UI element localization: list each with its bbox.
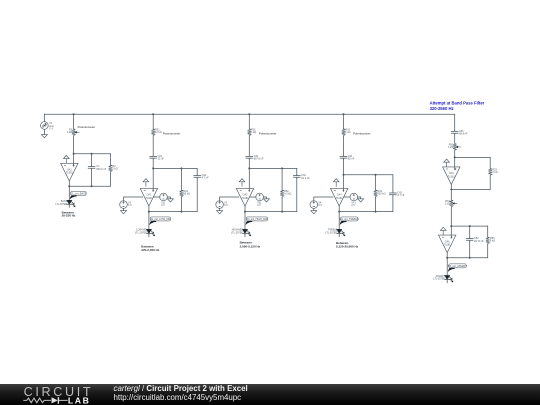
- wire OA6 output down: [446, 253, 448, 276]
- capacitor C41 series: [340, 155, 347, 159]
- op-amp OA6: [439, 235, 456, 253]
- wire V1 to ground: [43, 129, 45, 134]
- power arrow above OA2: [143, 179, 149, 187]
- probe label D2_out_LOW_MID: [149, 217, 171, 225]
- wire node C to OA6 input: [450, 226, 452, 238]
- resistor R32: [280, 189, 284, 197]
- op-amp OA3: [236, 188, 253, 206]
- capacitor C52: [466, 237, 473, 241]
- wire col4 res branch bottom: [375, 197, 377, 211]
- svg-text:C1563.6 nF: C1563.6 nF: [96, 165, 106, 171]
- wire C51 to R51: [454, 134, 456, 143]
- wire col5 R53 branch bottom: [487, 244, 489, 257]
- wire col1 res branch bottom: [109, 172, 111, 186]
- wire V2a to ground: [123, 209, 125, 211]
- svg-text:Between220-2,000 Hz: Between220-2,000 Hz: [141, 244, 160, 252]
- wire col2 cap branch bottom: [196, 178, 198, 211]
- node col1 cap bottom junction: [91, 185, 93, 187]
- svg-text:R22 kΩ: R22 kΩ: [112, 165, 117, 171]
- wire col5 C52 branch bottom: [469, 242, 471, 258]
- probe label D4_out_TREBLE: [340, 217, 360, 225]
- svg-text:LAB: LAB: [68, 396, 91, 405]
- svg-text:Between2,000-5,120 Hz: Between2,000-5,120 Hz: [240, 241, 261, 249]
- wire col3 rail to pot: [248, 114, 250, 128]
- wire col5 R52 branch top: [489, 157, 491, 168]
- wire col2 cap branch top: [196, 168, 198, 174]
- svg-text:D3_out_HIGH_MID: D3_out_HIGH_MID: [246, 218, 268, 221]
- wire OA1 output down: [68, 181, 70, 200]
- wire below LED D3: [244, 233, 246, 236]
- svg-text:V1sine1 V: V1sine1 V: [49, 122, 54, 130]
- svg-text:V310 V: V310 V: [257, 201, 262, 207]
- svg-text:V45 V: V45 V: [318, 202, 322, 208]
- wire col4 node horizontal: [344, 174, 393, 176]
- svg-text:R42400 kΩ: R42400 kΩ: [378, 190, 386, 196]
- wire C31 to node: [248, 159, 250, 168]
- resistor R42: [374, 189, 378, 197]
- wire op-amp to V3b: [250, 196, 256, 198]
- voltage source V4b: [350, 193, 358, 201]
- ground right of V2b: [167, 199, 173, 202]
- wire col5 rail corner down: [454, 114, 456, 130]
- svg-text:C31667.6 nF: C31667.6 nF: [254, 155, 264, 161]
- power arrow above OA6: [440, 227, 446, 235]
- svg-text:Attempt at Band Pass Filter320: Attempt at Band Pass Filter320-2560 Hz: [430, 100, 485, 111]
- voltage source V2b: [160, 193, 168, 201]
- op-amp OA4: [331, 188, 348, 206]
- svg-text:V35 V: V35 V: [224, 202, 228, 208]
- svg-text:C5168.8 nF: C5168.8 nF: [459, 130, 468, 136]
- svg-text:TREBLELTL-307EE: TREBLELTL-307EE: [325, 229, 337, 235]
- wire col2 rail to pot: [152, 114, 154, 128]
- power arrow above OA1: [64, 155, 70, 163]
- resistor R2 col1 feedback: [109, 164, 113, 172]
- ground below V1: [41, 135, 47, 138]
- svg-text:C424.7 nF: C424.7 nF: [397, 192, 405, 198]
- svg-text:Between20-220 Hz: Between20-220 Hz: [62, 210, 76, 217]
- wire col1 cap branch top: [91, 154, 93, 166]
- wire pot to C41: [343, 136, 345, 155]
- wire C21 to node: [152, 159, 154, 168]
- svg-text:V25 V: V25 V: [128, 202, 132, 208]
- wire OA2 output down: [148, 206, 150, 229]
- svg-text:V210 V: V210 V: [161, 201, 166, 207]
- svg-text:Between5,120-20,000 Hz: Between5,120-20,000 Hz: [336, 241, 359, 249]
- power arrow above OA4: [333, 179, 339, 187]
- wire V3b to ground: [264, 197, 267, 199]
- wire op-amp to V4b: [344, 196, 350, 198]
- svg-text:BASSLTL-307EE: BASSLTL-307EE: [55, 200, 67, 206]
- wire col5 R52 branch bottom: [489, 176, 491, 190]
- voltage source V4a: [310, 201, 318, 209]
- wire col3 res branch top: [281, 168, 283, 189]
- wiper arrow R61: [452, 202, 457, 204]
- wire node C horizontal: [451, 225, 487, 227]
- wire below LED D1: [68, 204, 70, 207]
- capacitor C51 series: [451, 130, 458, 134]
- svg-text:R526 kΩ: R526 kΩ: [492, 168, 497, 174]
- wire col4 node to op-amp: [343, 175, 345, 192]
- wire pot to C21: [152, 136, 154, 155]
- wire node B to OA5 input: [454, 157, 456, 170]
- potentiometer R1: [72, 128, 76, 136]
- svg-text:Potentiometer: Potentiometer: [163, 132, 180, 136]
- svg-text:C2112 nF: C2112 nF: [158, 155, 165, 161]
- wire below LED D5: [446, 279, 448, 282]
- svg-text:ATEMPTLTL-307EE: ATEMPTLTL-307EE: [433, 275, 445, 281]
- svg-text:R324.3 kΩ: R324.3 kΩ: [284, 190, 291, 196]
- node col4 res bottom junction: [375, 211, 377, 213]
- probe label D5_out_ATEMPT: [448, 264, 468, 272]
- potentiometer R31: [248, 128, 252, 136]
- wiper arrow R1: [75, 131, 80, 133]
- probe label D1_out_BASS: [70, 191, 87, 199]
- wire col2 node to op-amp: [152, 168, 154, 191]
- wire col3 res branch bottom: [281, 197, 283, 211]
- node col4 res branch junction: [375, 174, 377, 176]
- svg-text:TL081: TL081: [448, 175, 455, 178]
- wire col3 cap branch top: [296, 168, 298, 174]
- node col3 res branch junction: [281, 167, 283, 169]
- ground below V4a: [311, 211, 317, 214]
- resistor R22: [180, 189, 184, 197]
- wire R61 to node C: [450, 207, 452, 226]
- capacitor C32: [293, 174, 300, 178]
- node col5 cap52 bottom junction: [469, 257, 471, 259]
- svg-text:HIGH-MIDLTL-307EE: HIGH-MIDLTL-307EE: [231, 229, 243, 235]
- wire col5 stage1 bottom rail: [451, 189, 490, 191]
- node col2 res bottom junction: [180, 211, 182, 213]
- svg-text:C4182 nF: C4182 nF: [348, 155, 355, 161]
- svg-text:C5229.74 nF: C5229.74 nF: [474, 237, 484, 243]
- potentiometer R21: [151, 128, 155, 136]
- svg-text:C3221.1 nF: C3221.1 nF: [301, 174, 310, 180]
- wire col2 res branch bottom: [180, 197, 182, 211]
- wire col1 res branch top: [109, 154, 111, 165]
- wire col5 C52 branch top: [469, 226, 471, 237]
- wire col2 node horizontal: [153, 167, 197, 169]
- svg-text:TL081: TL081: [336, 197, 343, 200]
- node col5 cap52 junction: [469, 225, 471, 227]
- svg-text:R536 kΩ: R536 kΩ: [490, 237, 495, 243]
- wire node B horizontal to R52: [455, 156, 491, 158]
- ground right of V3b: [264, 199, 270, 202]
- wire col1 cap branch bottom: [91, 170, 93, 187]
- potentiometer R41: [342, 128, 346, 136]
- wire below LED D4: [338, 233, 340, 236]
- capacitor C31 series: [246, 155, 253, 159]
- svg-text:TL081: TL081: [242, 197, 249, 200]
- capacitor C1: [88, 165, 95, 169]
- svg-text:V410 V: V410 V: [351, 201, 356, 207]
- svg-text:C224.7 nF: C224.7 nF: [202, 174, 210, 180]
- voltage source V3b: [256, 193, 264, 201]
- wire col4 rail to pot: [343, 114, 345, 128]
- svg-text:D5_out_ATEMPT: D5_out_ATEMPT: [448, 265, 468, 268]
- node col3 top rail junction: [248, 113, 250, 115]
- node col1 output junction: [68, 185, 70, 187]
- svg-text:R2280 kΩ: R2280 kΩ: [183, 190, 190, 196]
- wire col2 bottom rail: [149, 211, 197, 213]
- wire OA3 output down: [244, 206, 246, 229]
- wire col4 res branch top: [375, 175, 377, 190]
- wire col5 stage2 bottom rail: [447, 257, 488, 259]
- wire V3a to ground: [219, 209, 221, 211]
- wire V4b to ground: [358, 197, 361, 199]
- node col4 input: [343, 174, 345, 176]
- wire node A to op-amp OA1 input: [73, 154, 75, 167]
- svg-text:R411 kΩ: R411 kΩ: [345, 129, 350, 135]
- svg-text:R11 kΩ: R11 kΩ: [67, 129, 73, 135]
- wire V4a to ground: [313, 209, 315, 211]
- svg-text:LOW-MIDLTL-307EE: LOW-MIDLTL-307EE: [135, 229, 147, 235]
- resistor R53: [486, 236, 490, 244]
- wire pot to C31: [248, 136, 250, 155]
- wire below LED D2: [148, 233, 150, 236]
- voltage source V2a: [120, 201, 128, 209]
- wire col4 bottom rail: [339, 211, 393, 213]
- svg-text:D1_out_BASS: D1_out_BASS: [70, 192, 86, 195]
- potentiometer R51: [453, 143, 457, 151]
- wire V2a to op-amp plus input: [124, 197, 143, 201]
- wire col2 res branch top: [180, 168, 182, 189]
- wire col3 cap branch bottom: [296, 179, 298, 212]
- node col2 res branch junction: [180, 167, 182, 169]
- op-amp OA1: [61, 163, 78, 181]
- svg-text:R611 kΩ: R611 kΩ: [445, 200, 451, 206]
- capacitor C21 series: [150, 155, 157, 159]
- LED D1 BASS: [67, 200, 75, 206]
- svg-text:Potentiometer: Potentiometer: [353, 132, 370, 136]
- wire OA5 output down to R61: [450, 185, 452, 200]
- LED D5: [445, 276, 453, 282]
- wire R51 to node B: [454, 151, 456, 158]
- node col4 top rail junction: [343, 113, 345, 115]
- voltage source V1 (AC): [41, 122, 49, 130]
- node col3 res bottom junction: [281, 211, 283, 213]
- power arrow above OA5: [444, 159, 450, 167]
- wire op-amp to V2b: [154, 196, 160, 198]
- wire V3a to op-amp plus input: [220, 197, 239, 201]
- svg-text:TL081: TL081: [444, 244, 451, 247]
- node col3 input: [248, 167, 250, 169]
- wire C41 to node: [343, 159, 345, 174]
- svg-text:TL081: TL081: [66, 172, 73, 175]
- svg-text:R511 kΩ: R511 kΩ: [448, 143, 454, 149]
- wire col5 R53 branch top: [487, 226, 489, 236]
- node A col1: [73, 153, 75, 155]
- ground below V3a: [217, 211, 223, 214]
- node col1 cap junction: [91, 153, 93, 155]
- wire V4a to op-amp plus input: [314, 197, 333, 201]
- LED D3: [243, 229, 251, 235]
- svg-text:R311 kΩ: R311 kΩ: [251, 129, 256, 135]
- node col5 stage1 output junction: [450, 189, 452, 191]
- op-amp OA5: [443, 167, 460, 185]
- node col4 output junction: [338, 211, 340, 213]
- wire V2b to ground: [167, 197, 170, 199]
- wire OA4 output down: [338, 206, 340, 229]
- svg-text:R2110 kΩ: R2110 kΩ: [155, 129, 162, 135]
- wire col4 cap branch bottom: [392, 196, 394, 212]
- wire col3 node horizontal: [249, 167, 296, 169]
- svg-text:Potentiometer: Potentiometer: [259, 132, 276, 136]
- node col2 output junction: [148, 211, 150, 213]
- wire col3 node to op-amp: [248, 168, 250, 191]
- CircuitLab logo: [22, 384, 106, 405]
- op-amp OA2: [140, 188, 157, 206]
- wire col4 cap branch top: [392, 175, 394, 192]
- wire col1 bottom rail: [69, 185, 110, 187]
- wire col3 bottom rail: [245, 211, 297, 213]
- power arrow above OA3: [239, 179, 245, 187]
- resistor R52 feedback: [488, 168, 492, 176]
- node col1 top rail junction: [73, 113, 75, 115]
- svg-text:D4_out_TREBLE: D4_out_TREBLE: [340, 218, 360, 221]
- wire col1 rail to R1: [73, 114, 75, 128]
- wire R1 to node A: [73, 136, 75, 154]
- node col2 input: [152, 167, 154, 169]
- capacitor C22: [194, 174, 201, 178]
- node col5 stage2 output junction: [446, 257, 448, 259]
- svg-text:Potentiometer: Potentiometer: [78, 125, 95, 129]
- node C col5 stage2 input: [450, 225, 452, 227]
- ground below V2a: [121, 211, 127, 214]
- wire V1 to rail: [43, 114, 45, 121]
- probe label D3_out_HIGH_MID: [246, 217, 269, 225]
- node B col5 stage1 input: [454, 156, 456, 158]
- node col2 top rail junction: [152, 113, 154, 115]
- LED D2: [147, 229, 155, 235]
- wiper arrow R51: [456, 146, 461, 148]
- svg-text:TL081: TL081: [146, 197, 153, 200]
- wire top rail: [44, 113, 454, 115]
- wire node A horizontal: [74, 153, 111, 155]
- voltage source V3a: [216, 201, 224, 209]
- svg-text:D2_out_LOW_MID: D2_out_LOW_MID: [150, 218, 171, 221]
- node col3 output junction: [244, 211, 246, 213]
- ground right of V4b: [358, 199, 364, 202]
- LED D4: [337, 229, 345, 235]
- potentiometer R61: [450, 199, 454, 207]
- capacitor C42: [390, 192, 397, 196]
